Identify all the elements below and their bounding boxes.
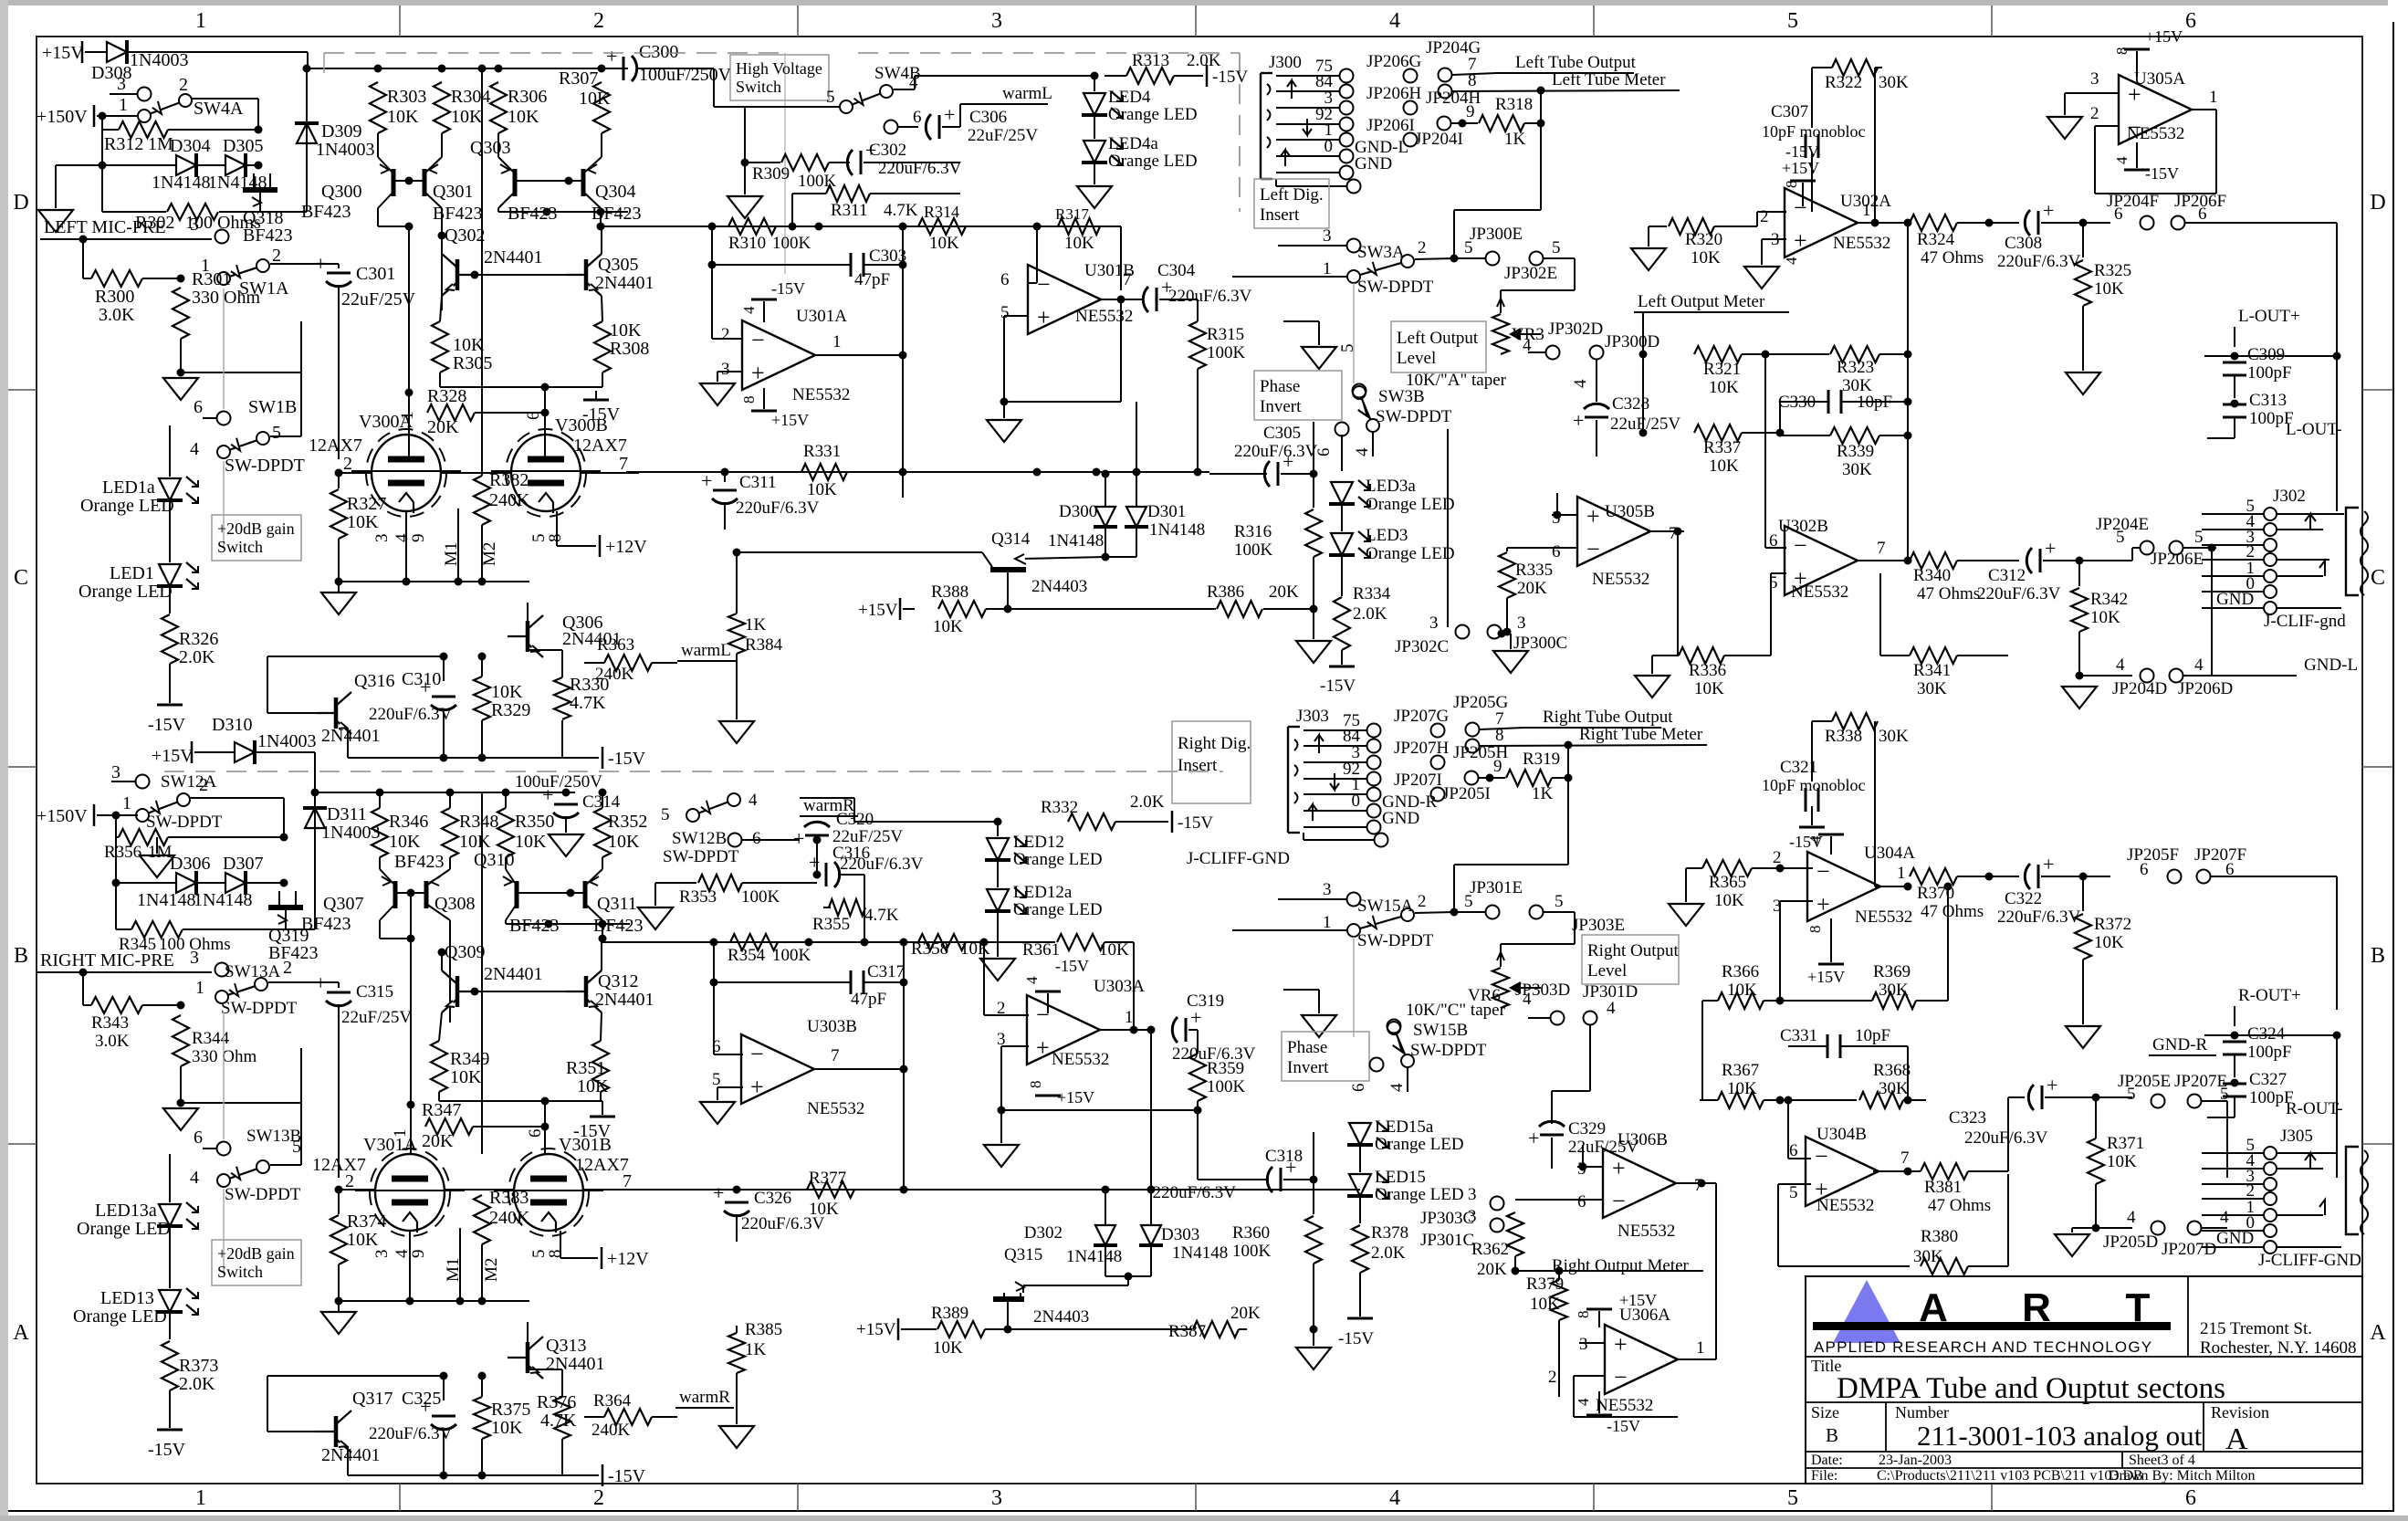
svg-text:C305: C305 <box>1263 424 1301 443</box>
svg-text:2: 2 <box>345 1171 354 1191</box>
svg-text:Revision: Revision <box>2211 1403 2269 1421</box>
svg-text:1: 1 <box>119 95 128 115</box>
svg-text:Date:: Date: <box>1811 1453 1843 1468</box>
svg-text:100K: 100K <box>772 946 811 965</box>
svg-text:6: 6 <box>752 829 761 848</box>
svg-text:+: + <box>1794 227 1807 254</box>
svg-text:D301: D301 <box>1147 502 1186 521</box>
svg-text:R314: R314 <box>924 203 959 221</box>
svg-text:100K: 100K <box>1234 540 1273 560</box>
svg-text:NE5532: NE5532 <box>1816 1196 1874 1215</box>
svg-text:22uF/25V: 22uF/25V <box>341 289 416 309</box>
svg-text:1: 1 <box>391 1129 410 1138</box>
svg-text:3: 3 <box>190 215 199 235</box>
svg-text:R324: R324 <box>1917 230 1955 249</box>
svg-text:10K: 10K <box>807 480 837 499</box>
svg-text:R309: R309 <box>752 164 790 184</box>
svg-text:R-OUT-: R-OUT- <box>2286 1099 2343 1118</box>
svg-text:C331: C331 <box>1780 1026 1817 1045</box>
svg-text:NE5532: NE5532 <box>807 1099 864 1118</box>
svg-text:6: 6 <box>2198 205 2207 224</box>
svg-text:R382: R382 <box>489 470 529 490</box>
svg-text:M2: M2 <box>482 1258 501 1282</box>
svg-text:JP302D: JP302D <box>1548 320 1603 339</box>
svg-text:12AX7: 12AX7 <box>575 1155 629 1175</box>
svg-text:2: 2 <box>199 775 208 795</box>
svg-text:R341: R341 <box>1913 661 1951 680</box>
svg-text:JP302E: JP302E <box>1504 264 1557 283</box>
svg-text:SW-DPDT: SW-DPDT <box>1357 931 1434 950</box>
svg-text:-15V: -15V <box>1785 142 1819 161</box>
svg-text:DMPA Tube and Ouptut sectons: DMPA Tube and Ouptut sectons <box>1837 1372 2225 1405</box>
svg-text:10K: 10K <box>1714 891 1744 910</box>
svg-text:3: 3 <box>117 74 126 94</box>
svg-text:+: + <box>2043 853 2054 876</box>
svg-text:GND-R: GND-R <box>2152 1035 2207 1054</box>
svg-text:30K: 30K <box>1879 1079 1909 1098</box>
svg-text:20K: 20K <box>1230 1304 1261 1323</box>
svg-text:+: + <box>2047 1074 2057 1096</box>
svg-text:R325: R325 <box>2094 261 2131 280</box>
svg-text:3: 3 <box>1579 1335 1588 1354</box>
svg-text:JP207E: JP207E <box>2174 1072 2227 1091</box>
svg-text:LED12: LED12 <box>1013 833 1064 852</box>
svg-text:10K/"C" taper: 10K/"C" taper <box>1406 1001 1506 1020</box>
svg-text:U303A: U303A <box>1094 977 1145 996</box>
svg-text:10K: 10K <box>1064 234 1094 253</box>
svg-text:-15V: -15V <box>148 715 186 735</box>
svg-text:10K: 10K <box>2094 279 2124 299</box>
svg-text:LED3a: LED3a <box>1366 477 1416 496</box>
svg-text:3: 3 <box>1468 1185 1477 1204</box>
svg-text:3: 3 <box>372 534 392 543</box>
svg-text:warmR: warmR <box>679 1388 730 1407</box>
svg-text:R315: R315 <box>1207 325 1244 344</box>
svg-text:+150V: +150V <box>37 107 88 127</box>
svg-text:R356: R356 <box>104 843 141 862</box>
svg-text:5: 5 <box>826 88 835 107</box>
svg-text:4: 4 <box>2220 1208 2229 1227</box>
svg-text:8: 8 <box>740 396 758 404</box>
svg-text:+: + <box>944 103 955 126</box>
svg-text:5: 5 <box>1552 238 1561 257</box>
svg-text:1: 1 <box>1862 201 1871 220</box>
svg-text:R320: R320 <box>1685 230 1722 249</box>
svg-text:R338: R338 <box>1825 727 1862 746</box>
svg-text:6: 6 <box>1577 1192 1586 1212</box>
svg-text:6: 6 <box>526 1129 545 1138</box>
svg-text:3: 3 <box>2090 69 2099 89</box>
svg-text:4: 4 <box>1389 1486 1400 1510</box>
svg-text:BF423: BF423 <box>394 852 444 872</box>
svg-text:2: 2 <box>1418 892 1427 911</box>
svg-text:10K: 10K <box>929 234 959 253</box>
svg-text:10K: 10K <box>347 1230 379 1250</box>
svg-text:V301B: V301B <box>559 1135 612 1155</box>
svg-text:+: + <box>1573 409 1584 432</box>
svg-text:RIGHT MIC-PRE: RIGHT MIC-PRE <box>40 950 174 970</box>
svg-text:JP206E: JP206E <box>2151 550 2204 569</box>
svg-text:10K: 10K <box>1709 378 1739 397</box>
svg-text:+: + <box>1816 891 1830 918</box>
svg-text:SW12B: SW12B <box>672 829 727 848</box>
svg-text:3: 3 <box>1323 880 1332 899</box>
svg-text:3: 3 <box>1323 226 1332 246</box>
svg-text:Switch: Switch <box>217 538 263 556</box>
svg-text:R-OUT+: R-OUT+ <box>2238 986 2301 1005</box>
svg-text:220uF/6.3V: 220uF/6.3V <box>741 1214 825 1233</box>
svg-text:C329: C329 <box>1568 1119 1606 1138</box>
svg-text:20K: 20K <box>427 417 459 437</box>
svg-text:2.0K: 2.0K <box>1130 792 1165 812</box>
svg-text:3: 3 <box>1517 614 1526 633</box>
svg-text:10pF monobloc: 10pF monobloc <box>1762 776 1866 794</box>
svg-text:12AX7: 12AX7 <box>309 435 362 456</box>
svg-text:JP207G: JP207G <box>1394 707 1449 726</box>
svg-text:Left Output: Left Output <box>1397 329 1479 348</box>
svg-text:Right Output Meter: Right Output Meter <box>1552 1256 1690 1275</box>
svg-text:NE5532: NE5532 <box>1618 1222 1675 1241</box>
svg-text:R359: R359 <box>1207 1059 1244 1078</box>
svg-text:7: 7 <box>619 454 628 474</box>
svg-text:SW-DPDT: SW-DPDT <box>225 1185 301 1204</box>
svg-text:1N4148: 1N4148 <box>194 890 252 910</box>
svg-text:JP205D: JP205D <box>2103 1233 2158 1252</box>
svg-text:Q301: Q301 <box>433 182 473 202</box>
svg-text:1: 1 <box>195 1486 206 1510</box>
svg-text:LED15a: LED15a <box>1375 1117 1434 1137</box>
svg-text:Invert: Invert <box>1287 1058 1329 1077</box>
svg-text:SW1B: SW1B <box>248 397 297 417</box>
svg-text:R305: R305 <box>453 353 492 373</box>
svg-text:R306: R306 <box>508 87 547 107</box>
svg-text:SW13A: SW13A <box>225 962 281 981</box>
svg-text:10K: 10K <box>960 939 990 959</box>
svg-text:Q307: Q307 <box>323 894 363 914</box>
svg-text:R360: R360 <box>1232 1223 1270 1243</box>
svg-text:J-CLIFF-GND: J-CLIFF-GND <box>2258 1251 2361 1270</box>
svg-text:6: 6 <box>2140 860 2149 879</box>
svg-text:J305: J305 <box>2280 1127 2313 1146</box>
svg-text:-15V: -15V <box>1178 813 1213 833</box>
svg-text:+15V: +15V <box>1807 968 1845 986</box>
svg-text:30K: 30K <box>1913 1247 1943 1266</box>
svg-text:Q309: Q309 <box>445 942 485 962</box>
svg-text:B: B <box>14 944 28 968</box>
svg-text:4: 4 <box>1353 447 1372 456</box>
svg-text:8: 8 <box>1806 926 1824 934</box>
svg-text:100uF/250V: 100uF/250V <box>515 772 602 792</box>
svg-text:4: 4 <box>190 439 199 459</box>
svg-text:R378: R378 <box>1371 1223 1408 1243</box>
svg-text:-15V: -15V <box>1607 1417 1640 1435</box>
svg-text:+15V: +15V <box>42 43 84 63</box>
svg-text:C323: C323 <box>1949 1108 1986 1128</box>
svg-text:2: 2 <box>593 1486 604 1510</box>
svg-text:1K: 1K <box>1504 130 1526 149</box>
svg-text:10K: 10K <box>459 832 491 852</box>
svg-text:SW-DPDT: SW-DPDT <box>663 847 739 866</box>
svg-text:4.7K: 4.7K <box>864 906 899 925</box>
svg-text:NE5532: NE5532 <box>1596 1396 1653 1415</box>
svg-text:+15V: +15V <box>1782 159 1819 177</box>
svg-text:4: 4 <box>740 306 758 314</box>
svg-text:D: D <box>2370 191 2385 215</box>
svg-text:NE5532: NE5532 <box>1052 1050 1109 1069</box>
svg-text:−: − <box>1586 536 1600 562</box>
svg-text:+: + <box>793 827 804 850</box>
svg-text:5: 5 <box>661 805 670 824</box>
svg-text:4: 4 <box>749 791 758 810</box>
svg-text:6: 6 <box>194 1128 203 1148</box>
svg-text:8: 8 <box>1468 71 1477 90</box>
svg-text:R389: R389 <box>931 1304 968 1323</box>
svg-text:+: + <box>315 971 326 994</box>
svg-text:Orange LED: Orange LED <box>1375 1185 1464 1204</box>
svg-text:-15V: -15V <box>1338 1329 1374 1348</box>
svg-text:9: 9 <box>409 534 428 543</box>
svg-text:1: 1 <box>195 9 206 33</box>
svg-text:C319: C319 <box>1187 991 1224 1011</box>
svg-text:5: 5 <box>712 1070 721 1089</box>
svg-text:SW-DPDT: SW-DPDT <box>221 999 298 1018</box>
svg-text:10K: 10K <box>2090 608 2120 627</box>
svg-text:U304A: U304A <box>1864 844 1915 863</box>
svg-text:1: 1 <box>2209 88 2218 107</box>
svg-text:−: − <box>1612 1188 1626 1214</box>
svg-text:A: A <box>13 1321 29 1345</box>
svg-text:R326: R326 <box>179 629 218 649</box>
svg-text:LED15: LED15 <box>1375 1168 1426 1187</box>
svg-text:240K: 240K <box>489 1208 530 1228</box>
svg-text:BF423: BF423 <box>301 914 351 934</box>
svg-text:Switch: Switch <box>217 1263 263 1281</box>
svg-text:7: 7 <box>623 1171 632 1191</box>
svg-text:2: 2 <box>1760 207 1769 226</box>
svg-text:1: 1 <box>122 793 131 813</box>
svg-text:SW-DPDT: SW-DPDT <box>1410 1041 1487 1060</box>
svg-text:File:: File: <box>1811 1468 1837 1484</box>
svg-text:C308: C308 <box>2005 234 2042 253</box>
svg-text:240K: 240K <box>592 1421 631 1440</box>
svg-text:−: − <box>751 327 765 353</box>
svg-text:NE5532: NE5532 <box>1791 582 1848 602</box>
svg-text:C317: C317 <box>867 962 905 981</box>
svg-text:Q317: Q317 <box>352 1389 393 1409</box>
svg-text:20K: 20K <box>1477 1260 1507 1279</box>
svg-text:−: − <box>1794 532 1807 559</box>
svg-text:R312: R312 <box>104 134 143 154</box>
svg-text:+: + <box>1037 304 1051 330</box>
svg-text:High Voltage: High Voltage <box>736 59 822 78</box>
svg-text:6: 6 <box>1349 1084 1368 1093</box>
svg-text:4: 4 <box>1575 1398 1592 1406</box>
svg-text:Number: Number <box>1895 1403 1949 1421</box>
svg-text:U303B: U303B <box>807 1017 857 1036</box>
svg-text:1N4148: 1N4148 <box>1066 1247 1122 1266</box>
svg-text:NE5532: NE5532 <box>1855 907 1912 927</box>
svg-text:10pF: 10pF <box>1855 1026 1890 1045</box>
svg-text:LEFT MIC-PRE: LEFT MIC-PRE <box>44 217 166 237</box>
svg-text:BF423: BF423 <box>508 204 557 224</box>
svg-text:Left Tube Meter: Left Tube Meter <box>1552 70 1666 89</box>
svg-text:+: + <box>542 783 553 806</box>
svg-text:R374: R374 <box>347 1212 386 1232</box>
svg-text:4.7K: 4.7K <box>540 1411 577 1431</box>
svg-text:Orange LED: Orange LED <box>1375 1135 1464 1154</box>
svg-text:LED13: LED13 <box>100 1288 154 1308</box>
svg-text:4: 4 <box>2113 156 2131 164</box>
svg-text:R373: R373 <box>179 1356 218 1376</box>
svg-text:30K: 30K <box>1917 679 1947 698</box>
svg-text:10K: 10K <box>450 1067 482 1087</box>
svg-text:+: + <box>701 469 712 492</box>
svg-text:GND: GND <box>2216 590 2254 609</box>
svg-text:9: 9 <box>409 1250 428 1259</box>
svg-text:C311: C311 <box>739 473 776 492</box>
svg-text:C330: C330 <box>1778 393 1816 412</box>
svg-text:+: + <box>751 360 765 386</box>
svg-text:C306: C306 <box>969 108 1007 127</box>
svg-text:+20dB gain: +20dB gain <box>217 1244 295 1263</box>
svg-text:BF423: BF423 <box>592 204 641 224</box>
svg-text:3: 3 <box>1468 1207 1477 1226</box>
svg-text:L-OUT+: L-OUT+ <box>2238 307 2300 326</box>
svg-text:2.0K: 2.0K <box>179 1374 215 1394</box>
svg-text:R386: R386 <box>1207 582 1244 602</box>
svg-text:SW12A: SW12A <box>161 772 217 792</box>
svg-text:7: 7 <box>1123 270 1132 289</box>
svg-text:SW3B: SW3B <box>1378 387 1425 406</box>
svg-text:B: B <box>2371 944 2385 968</box>
svg-text:2N4401: 2N4401 <box>595 990 654 1010</box>
svg-text:10K: 10K <box>453 335 485 355</box>
svg-text:12AX7: 12AX7 <box>312 1155 366 1175</box>
svg-text:Left Dig.: Left Dig. <box>1260 185 1324 205</box>
svg-text:NE5532: NE5532 <box>792 385 850 404</box>
svg-text:R311: R311 <box>831 201 867 220</box>
svg-text:U304B: U304B <box>1816 1125 1867 1144</box>
svg-text:LED3: LED3 <box>1366 526 1408 545</box>
svg-text:D300: D300 <box>1059 502 1097 521</box>
svg-text:6: 6 <box>2114 205 2123 224</box>
svg-text:Orange LED: Orange LED <box>1013 900 1103 919</box>
svg-text:5: 5 <box>1464 892 1473 911</box>
svg-text:Right Output: Right Output <box>1587 941 1679 960</box>
svg-text:10K: 10K <box>2107 1152 2137 1171</box>
svg-text:+: + <box>750 1074 764 1100</box>
svg-text:2N4401: 2N4401 <box>321 726 380 746</box>
svg-text:−: − <box>1037 271 1051 298</box>
svg-text:20K: 20K <box>1517 579 1547 598</box>
svg-text:10K: 10K <box>579 89 611 109</box>
svg-text:100K: 100K <box>1207 343 1246 362</box>
svg-text:Size: Size <box>1811 1403 1839 1421</box>
svg-text:+15V: +15V <box>2145 27 2183 46</box>
svg-text:1K: 1K <box>745 615 767 635</box>
svg-text:Q314: Q314 <box>991 530 1031 549</box>
svg-text:R371: R371 <box>2107 1134 2144 1153</box>
svg-text:B: B <box>1826 1424 1838 1446</box>
svg-text:Q313: Q313 <box>546 1336 586 1356</box>
svg-text:1: 1 <box>201 256 210 276</box>
svg-text:C300: C300 <box>639 42 678 62</box>
svg-text:U306B: U306B <box>1618 1130 1668 1149</box>
svg-text:BF423: BF423 <box>243 226 292 246</box>
svg-text:10K: 10K <box>1709 456 1739 476</box>
svg-text:Left Output Meter: Left Output Meter <box>1638 292 1765 311</box>
svg-text:100K: 100K <box>1207 1077 1246 1096</box>
svg-text:R308: R308 <box>610 339 649 359</box>
svg-text:4: 4 <box>1783 257 1800 265</box>
svg-text:Q308: Q308 <box>434 894 475 914</box>
svg-text:+: + <box>420 1395 431 1418</box>
svg-text:20K: 20K <box>422 1131 454 1151</box>
svg-text:1N4003: 1N4003 <box>316 140 374 160</box>
svg-text:JP205E: JP205E <box>2118 1072 2171 1091</box>
svg-text:1K: 1K <box>1532 784 1554 803</box>
svg-text:1N4003: 1N4003 <box>257 731 316 751</box>
svg-text:R328: R328 <box>427 386 466 406</box>
svg-text:8: 8 <box>1495 726 1504 745</box>
svg-text:−: − <box>1816 858 1830 885</box>
svg-text:C312: C312 <box>1988 566 2026 585</box>
svg-text:100K: 100K <box>1232 1242 1272 1261</box>
svg-text:10K: 10K <box>387 107 419 127</box>
svg-text:SW1A: SW1A <box>239 278 289 299</box>
svg-text:Orange LED: Orange LED <box>1108 105 1198 124</box>
svg-text:R380: R380 <box>1921 1227 1958 1246</box>
svg-text:R327: R327 <box>347 494 386 514</box>
svg-text:2: 2 <box>721 325 730 344</box>
svg-text:R331: R331 <box>803 442 841 461</box>
svg-text:220uF/6.3V: 220uF/6.3V <box>1997 252 2081 271</box>
svg-text:−: − <box>1794 194 1807 221</box>
svg-text:Q315: Q315 <box>1004 1245 1042 1264</box>
svg-text:R300: R300 <box>95 287 134 307</box>
svg-text:220uF/6.3V: 220uF/6.3V <box>1153 1183 1237 1202</box>
svg-text:5: 5 <box>1338 344 1357 353</box>
svg-text:10K: 10K <box>2094 933 2124 952</box>
svg-text:6: 6 <box>2185 1486 2196 1510</box>
svg-text:J300: J300 <box>1269 53 1302 72</box>
svg-text:JP206I: JP206I <box>1366 116 1415 135</box>
svg-text:2.0K: 2.0K <box>1371 1243 1406 1263</box>
svg-text:3.0K: 3.0K <box>99 305 135 325</box>
svg-text:U301A: U301A <box>796 307 847 326</box>
svg-text:SW15A: SW15A <box>1357 897 1414 916</box>
svg-text:1N4148: 1N4148 <box>1048 531 1104 551</box>
svg-text:5: 5 <box>292 1137 301 1157</box>
svg-text:211-3001-103 analog out: 211-3001-103 analog out <box>1917 1420 2203 1452</box>
svg-text:100pF: 100pF <box>2247 1043 2292 1062</box>
svg-text:10K: 10K <box>1691 248 1721 267</box>
svg-text:JP206D: JP206D <box>2178 679 2233 698</box>
svg-text:JP205I: JP205I <box>1442 784 1491 803</box>
svg-text:+15V: +15V <box>771 411 809 429</box>
svg-text:1K: 1K <box>745 1340 767 1359</box>
svg-text:Insert: Insert <box>1178 756 1218 775</box>
svg-text:R353: R353 <box>679 887 717 907</box>
svg-text:L-OUT-: L-OUT- <box>2286 420 2342 439</box>
svg-text:20K: 20K <box>1269 582 1299 602</box>
svg-text:R323: R323 <box>1837 358 1874 377</box>
svg-text:GND: GND <box>2216 1229 2254 1248</box>
svg-text:-15V: -15V <box>1212 68 1248 87</box>
svg-text:1N4148: 1N4148 <box>152 173 210 193</box>
svg-text:220uF/6.3V: 220uF/6.3V <box>736 498 820 518</box>
svg-text:4: 4 <box>190 1168 199 1188</box>
